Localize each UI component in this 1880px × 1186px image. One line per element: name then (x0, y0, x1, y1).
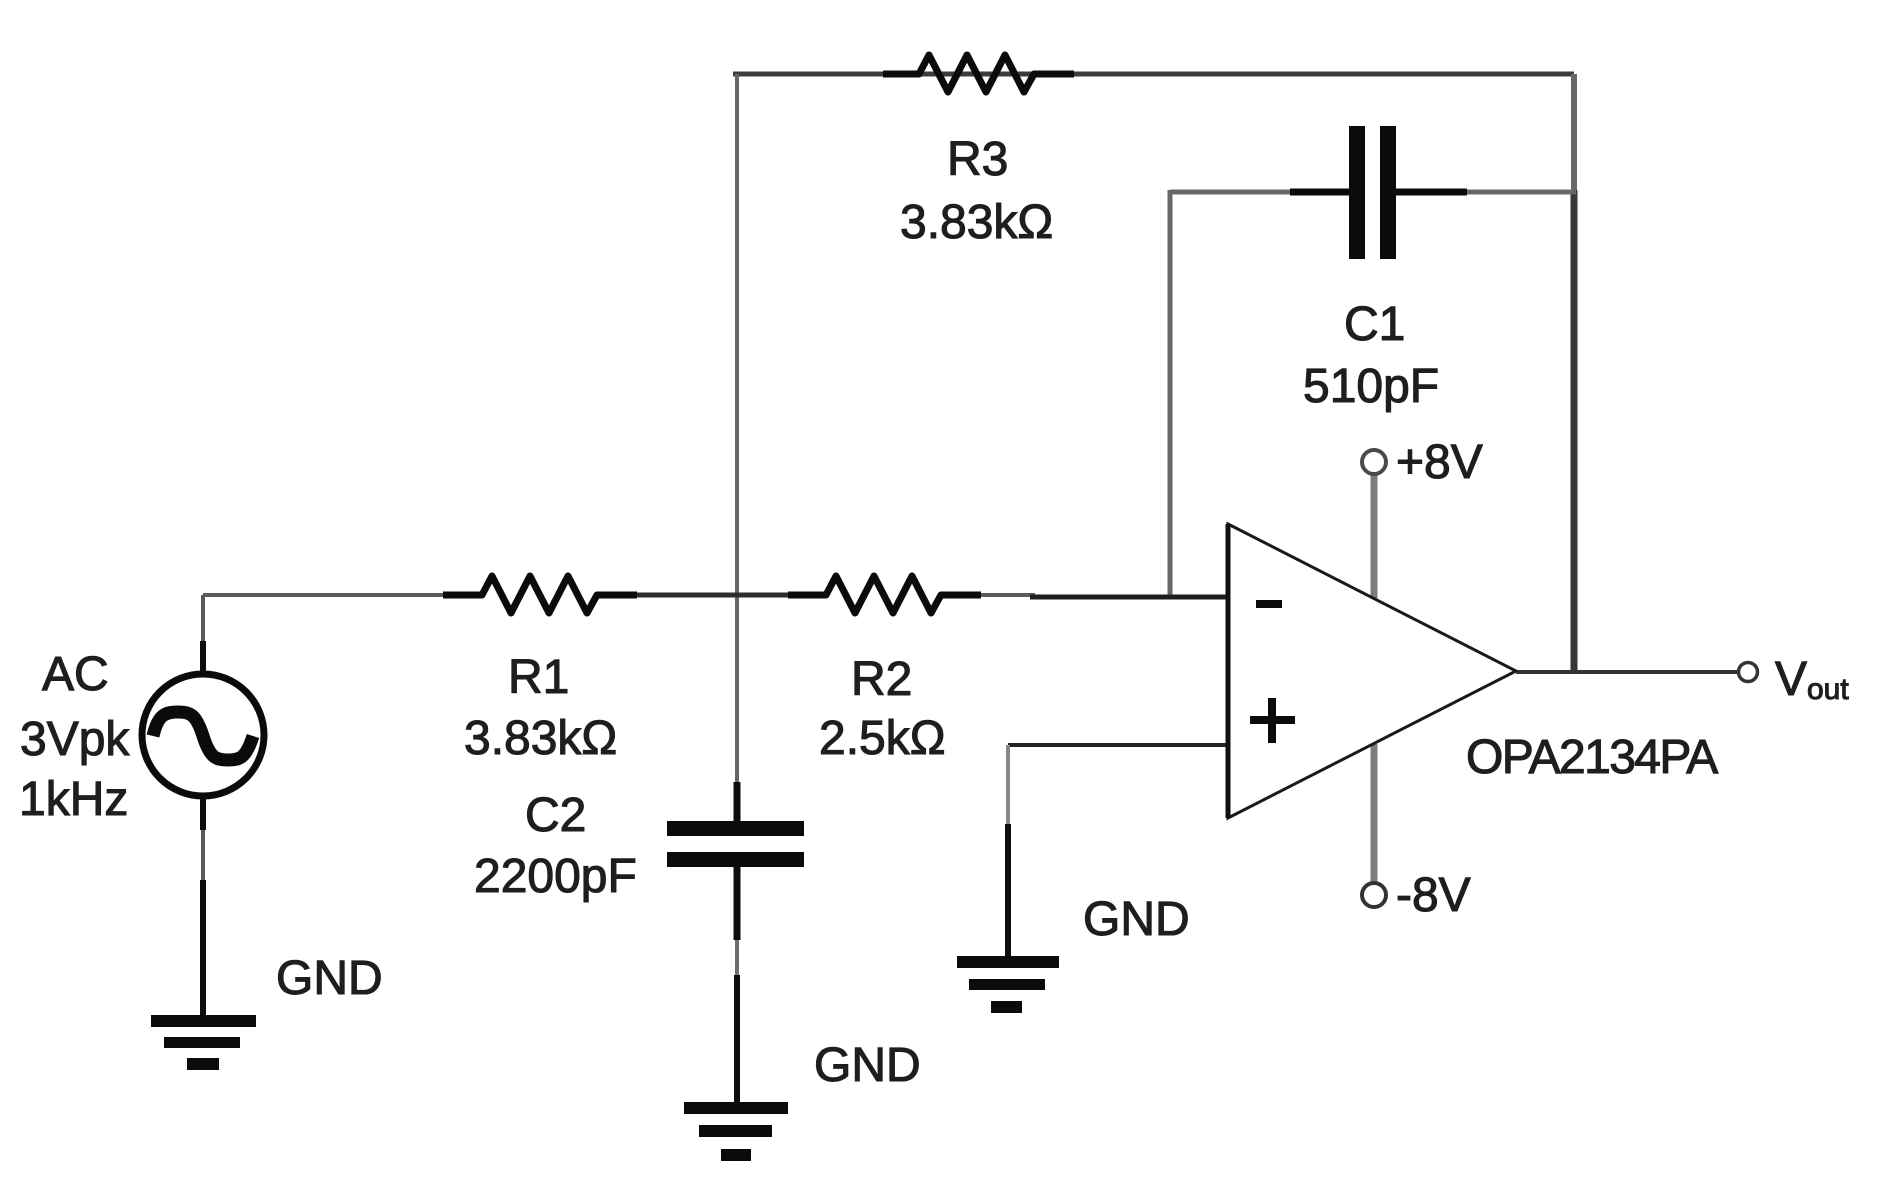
svg-text:C1: C1 (1344, 298, 1405, 351)
svg-text:V: V (1775, 653, 1807, 706)
svg-text:R1: R1 (508, 651, 569, 704)
svg-text:3.83kΩ: 3.83kΩ (900, 196, 1053, 249)
svg-text:R2: R2 (851, 653, 912, 706)
svg-text:R3: R3 (947, 133, 1008, 186)
svg-text:+8V: +8V (1396, 436, 1483, 489)
svg-text:GND: GND (1083, 893, 1190, 946)
svg-text:3Vpk: 3Vpk (20, 713, 130, 766)
svg-text:OPA2134PA: OPA2134PA (1466, 731, 1718, 784)
svg-text:3.83kΩ: 3.83kΩ (464, 712, 617, 765)
svg-text:2200pF: 2200pF (474, 850, 637, 903)
svg-text:GND: GND (276, 952, 383, 1005)
svg-text:-8V: -8V (1396, 869, 1471, 922)
svg-text:out: out (1807, 673, 1849, 706)
svg-text:GND: GND (814, 1039, 921, 1092)
svg-text:AC: AC (42, 648, 109, 701)
svg-text:1kHz: 1kHz (19, 773, 128, 826)
svg-text:510pF: 510pF (1303, 360, 1439, 413)
svg-text:2.5kΩ: 2.5kΩ (819, 712, 946, 765)
svg-text:C2: C2 (525, 789, 586, 842)
